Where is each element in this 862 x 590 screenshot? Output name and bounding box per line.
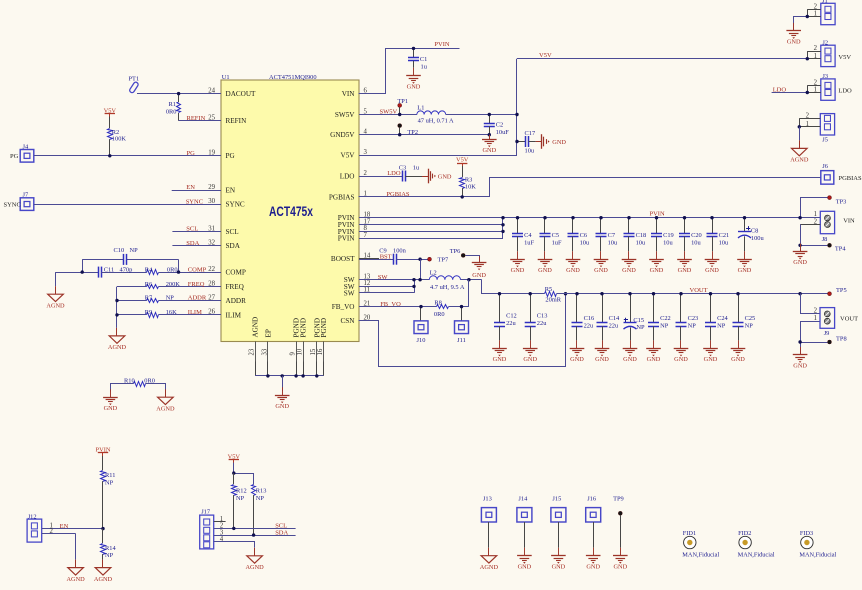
node junction C8 <box>743 216 746 219</box>
ground GND (C6) <box>572 251 574 259</box>
svg-text:GND: GND <box>538 267 552 274</box>
capacitor C3 1u <box>399 164 422 181</box>
svg-text:R7: R7 <box>145 295 153 302</box>
svg-text:L1: L1 <box>417 104 424 111</box>
svg-text:LDO: LDO <box>773 87 787 94</box>
ground GND (R10) <box>110 389 112 397</box>
wire TP3 riser <box>801 198 828 218</box>
svg-text:EP: EP <box>265 329 273 337</box>
svg-text:PGBIAS: PGBIAS <box>839 175 862 182</box>
wire EN stub <box>172 190 221 192</box>
connector J17 <box>200 509 226 549</box>
ground GND (C13) <box>530 340 532 348</box>
node junction PVIN/J8 <box>798 216 801 219</box>
node junction R12/SCL <box>232 527 235 530</box>
wire C2 to GND <box>489 135 491 140</box>
svg-text:10: 10 <box>297 348 304 355</box>
svg-text:U1: U1 <box>222 74 230 81</box>
wire SCL stub <box>172 231 221 233</box>
svg-text:EN: EN <box>226 186 236 194</box>
svg-text:10u: 10u <box>608 240 618 247</box>
svg-text:7: 7 <box>364 232 368 239</box>
ground AGND (C11) <box>55 286 57 294</box>
svg-text:GND: GND <box>738 267 752 274</box>
node junction TP8 <box>798 340 801 343</box>
node junction C6 <box>571 216 574 219</box>
svg-text:GND: GND <box>793 259 807 266</box>
node junction BOOST/SW <box>418 258 421 261</box>
svg-text:V5V: V5V <box>456 157 469 164</box>
ground GND (J1) <box>793 23 795 31</box>
ground GND (C1) <box>413 68 415 76</box>
svg-text:C14: C14 <box>609 315 620 322</box>
wire to AGND <box>55 272 57 286</box>
ground GND (C23) <box>680 340 682 348</box>
svg-text:2: 2 <box>50 528 54 535</box>
ground GND (C19) <box>656 251 658 259</box>
connector J14 <box>517 496 532 548</box>
svg-text:GND: GND <box>623 356 637 363</box>
node junction CSN/VOUT <box>564 292 567 295</box>
svg-text:GND: GND <box>613 563 627 570</box>
svg-text:1: 1 <box>814 211 817 218</box>
svg-text:2: 2 <box>806 113 810 120</box>
svg-text:C5: C5 <box>552 232 559 239</box>
capacitor C16 22u <box>572 294 595 341</box>
wire GND5V <box>359 134 489 136</box>
test point TP6 <box>450 248 466 257</box>
svg-text:J11: J11 <box>457 337 466 344</box>
svg-text:2: 2 <box>814 45 818 52</box>
svg-text:100n: 100n <box>393 247 407 254</box>
svg-text:16K: 16K <box>166 309 177 316</box>
svg-text:NP: NP <box>256 495 265 502</box>
svg-text:SDA: SDA <box>275 530 288 537</box>
ground AGND (J5) <box>799 140 801 148</box>
wire VOUT to J9 pin2 <box>801 294 821 314</box>
svg-text:PG: PG <box>10 153 19 160</box>
svg-text:1u: 1u <box>413 164 420 171</box>
svg-text:EN: EN <box>60 523 69 530</box>
resistor R11 NP <box>101 456 116 529</box>
node junction C5 <box>543 216 546 219</box>
svg-text:2: 2 <box>814 218 818 225</box>
svg-text:GND: GND <box>570 356 584 363</box>
wire FB up to L2 node <box>468 280 470 307</box>
svg-text:TP6: TP6 <box>450 248 461 255</box>
svg-text:R1: R1 <box>169 101 176 108</box>
svg-text:FID2: FID2 <box>738 530 751 537</box>
svg-text:C9: C9 <box>379 247 386 254</box>
wire L2 to VOUT rail <box>482 280 545 294</box>
svg-text:GND: GND <box>552 563 566 570</box>
svg-text:AGND: AGND <box>66 576 85 583</box>
wire BOOST <box>359 259 393 261</box>
svg-text:1uF: 1uF <box>552 240 562 247</box>
capacitor C19 10u <box>651 218 674 252</box>
svg-text:ACT475x: ACT475x <box>269 204 313 219</box>
svg-text:PG: PG <box>187 150 196 157</box>
connector J13 <box>481 496 496 548</box>
connector J7 <box>4 192 34 211</box>
svg-text:TP8: TP8 <box>836 336 847 343</box>
svg-text:C24: C24 <box>717 315 728 322</box>
ground GND (TP6) <box>479 256 481 262</box>
node junction R2/PG <box>108 154 111 157</box>
svg-text:C3: C3 <box>399 164 406 171</box>
ground GND (C4) <box>517 251 519 259</box>
svg-text:10u: 10u <box>580 240 590 247</box>
svg-text:J10: J10 <box>417 337 426 344</box>
svg-text:C21: C21 <box>719 232 730 239</box>
capacitor C5 1uF <box>540 218 562 252</box>
ground GND (C17) sideways <box>536 141 542 143</box>
svg-text:AGND: AGND <box>94 576 113 583</box>
ground AGND (J17) <box>254 548 256 556</box>
connector J8 VIN <box>800 211 855 243</box>
svg-text:22u: 22u <box>609 323 619 330</box>
svg-text:PG: PG <box>226 152 235 160</box>
capacitor C8 100u polarized <box>738 218 764 252</box>
svg-text:PGND: PGND <box>320 318 328 338</box>
svg-text:R9: R9 <box>145 309 152 316</box>
node junction J10 <box>419 305 422 308</box>
svg-text:TP5: TP5 <box>836 287 847 294</box>
power PVIN (J12 divider) <box>96 446 111 456</box>
node junction C2 top <box>488 113 491 116</box>
capacitor C10 NP <box>82 247 178 265</box>
wire FB_VO <box>359 306 437 308</box>
svg-text:FID3: FID3 <box>800 530 813 537</box>
wire LDO stub <box>359 176 402 178</box>
svg-text:30: 30 <box>208 198 215 205</box>
svg-text:R8: R8 <box>434 299 441 306</box>
wire V5V rail <box>516 59 518 155</box>
svg-text:SYNC: SYNC <box>186 198 203 205</box>
ground GND (TP9) <box>620 548 622 556</box>
test point TP5 <box>828 287 847 296</box>
svg-text:1: 1 <box>814 53 817 60</box>
svg-text:C10: C10 <box>114 247 125 254</box>
node junction TP2 <box>398 133 401 136</box>
connector J4 <box>10 143 34 162</box>
ground AGND (J12) <box>75 560 77 568</box>
svg-text:1u: 1u <box>421 64 428 71</box>
svg-text:TP4: TP4 <box>835 246 846 253</box>
svg-text:COMP: COMP <box>188 266 207 273</box>
svg-text:R10: R10 <box>124 377 135 384</box>
svg-text:GND: GND <box>518 563 532 570</box>
ground GND (J8) <box>800 244 802 252</box>
connector J12 <box>27 513 103 542</box>
connector J15 <box>551 496 566 548</box>
resistor R9 16K <box>117 309 221 317</box>
svg-text:NP: NP <box>105 479 114 486</box>
node junction L2 out <box>467 278 470 281</box>
svg-text:2: 2 <box>814 3 818 10</box>
node junction TP4 <box>798 244 801 247</box>
node junction EN/R11 <box>101 527 104 530</box>
node junction C23 <box>679 292 682 295</box>
ground GND (J14) <box>524 548 526 556</box>
svg-text:29: 29 <box>208 184 215 191</box>
resistor R10 0R0 <box>111 377 166 391</box>
wire SDA <box>214 535 296 537</box>
svg-text:C6: C6 <box>580 232 587 239</box>
svg-text:GND: GND <box>586 563 600 570</box>
svg-text:470p: 470p <box>120 266 133 273</box>
wire AGND/EP/PGND bus <box>255 362 257 376</box>
svg-text:SCL: SCL <box>226 228 239 236</box>
svg-text:L2: L2 <box>430 270 437 277</box>
test point TP1 <box>397 98 408 115</box>
wire J12 pin2 to AGND <box>75 534 77 560</box>
svg-text:C18: C18 <box>636 232 647 239</box>
svg-text:J5: J5 <box>822 137 828 144</box>
node junction J9 riser <box>798 292 801 295</box>
svg-text:GND: GND <box>793 363 807 370</box>
wire J9 pin1 to GND <box>801 322 821 355</box>
svg-text:4: 4 <box>220 536 224 543</box>
wire L1 out to V5V node <box>446 114 517 116</box>
svg-text:PGBIAS: PGBIAS <box>329 193 355 201</box>
svg-text:C15: C15 <box>633 317 644 324</box>
svg-text:REFIN: REFIN <box>187 115 206 122</box>
svg-text:GND: GND <box>552 139 566 146</box>
wire SYNC <box>34 204 221 206</box>
node junction J11 <box>460 305 463 308</box>
svg-text:J17: J17 <box>201 509 211 516</box>
capacitor C1 1u <box>408 48 428 70</box>
svg-text:1: 1 <box>814 87 817 94</box>
svg-text:TP3: TP3 <box>836 198 847 205</box>
ground GND (C16) <box>576 340 578 348</box>
capacitor C7 10u <box>596 218 618 252</box>
resistor R5 20mR <box>545 286 562 303</box>
svg-text:10u: 10u <box>691 240 701 247</box>
power V5V (R2 pullup) <box>104 107 117 117</box>
svg-text:22u: 22u <box>584 323 594 330</box>
svg-text:0R0: 0R0 <box>434 311 445 318</box>
ground AGND (R6 R7 R9) <box>116 328 118 336</box>
svg-text:C12: C12 <box>506 313 517 320</box>
svg-text:AGND: AGND <box>480 564 499 571</box>
svg-text:22u: 22u <box>506 320 516 327</box>
svg-text:ADDR: ADDR <box>226 297 247 305</box>
svg-text:VOUT: VOUT <box>690 287 708 294</box>
svg-text:C2: C2 <box>496 122 503 129</box>
svg-text:PVIN: PVIN <box>338 235 356 243</box>
connector J1 <box>807 0 835 25</box>
svg-text:FB_VO: FB_VO <box>380 301 401 308</box>
capacitor C14 22u <box>597 294 621 341</box>
svg-text:47 uH, 0.71 A: 47 uH, 0.71 A <box>418 118 454 125</box>
svg-text:SW: SW <box>344 289 355 297</box>
resistor R7 NP <box>117 295 221 303</box>
inductor L1 47uH <box>417 104 454 124</box>
svg-text:10u: 10u <box>719 240 729 247</box>
svg-text:10u: 10u <box>636 240 646 247</box>
capacitor C20 10u <box>679 218 702 252</box>
resistor R3 10K <box>460 166 477 197</box>
svg-text:NP: NP <box>688 323 697 330</box>
svg-text:LDO: LDO <box>838 88 852 95</box>
svg-text:NP: NP <box>130 247 139 254</box>
svg-text:AGND: AGND <box>252 317 260 338</box>
svg-text:GND: GND <box>472 272 486 279</box>
resistor R2 100K <box>108 117 127 156</box>
wire PGBIAS <box>359 178 821 197</box>
svg-text:GND: GND <box>566 267 580 274</box>
svg-text:2: 2 <box>364 170 368 177</box>
ground GND (C25) <box>738 340 740 348</box>
svg-text:SYNC: SYNC <box>226 201 245 209</box>
connector J2 V5V <box>807 40 851 67</box>
svg-text:GND: GND <box>523 356 537 363</box>
svg-text:MAN,Fiducial: MAN,Fiducial <box>738 552 775 559</box>
ground GND (C14) <box>602 340 604 348</box>
ground GND (C12) <box>499 340 501 348</box>
svg-text:1: 1 <box>806 121 809 128</box>
node junction pullup branch <box>232 471 235 474</box>
wire LDO to J3 <box>772 92 808 94</box>
test point TP9 <box>613 496 624 548</box>
svg-text:SW5V: SW5V <box>335 111 355 119</box>
test point TP3 <box>828 196 847 206</box>
svg-text:R11: R11 <box>105 472 115 479</box>
op-amp U1 ACT475x regulator body <box>221 74 359 342</box>
node junction C19 <box>655 216 658 219</box>
node junction C14 <box>600 292 603 295</box>
fiducial FID3 <box>799 530 836 558</box>
ground GND (J15) <box>558 548 560 556</box>
wire J17 pin4 to AGND <box>214 542 255 548</box>
capacitor C6 10u <box>568 218 590 252</box>
svg-text:23: 23 <box>249 348 256 355</box>
wire C10 left drop <box>82 259 84 272</box>
wire VOUT rail <box>557 293 828 295</box>
resistor R6 200K <box>117 281 221 289</box>
connector J5 <box>799 113 834 144</box>
wire BOOST to SW <box>420 259 422 280</box>
svg-text:J14: J14 <box>518 496 528 503</box>
node junction TP1 <box>398 113 401 116</box>
svg-text:SW: SW <box>378 274 389 281</box>
test point TP4 <box>800 243 846 252</box>
svg-text:33: 33 <box>261 348 268 355</box>
svg-text:PT1: PT1 <box>129 76 140 83</box>
svg-text:AGND: AGND <box>156 405 175 412</box>
svg-text:PGND: PGND <box>300 318 308 338</box>
svg-text:FREQ: FREQ <box>188 281 205 288</box>
svg-text:J13: J13 <box>483 496 492 503</box>
ground GND (C20) <box>684 251 686 259</box>
node junction C2/GND5V <box>488 133 491 136</box>
capacitor C13 22u <box>525 294 548 341</box>
svg-text:100u: 100u <box>751 235 765 242</box>
svg-text:BST: BST <box>380 253 392 260</box>
svg-text:MAN,Fiducial: MAN,Fiducial <box>682 552 719 559</box>
connector J16 <box>586 496 601 548</box>
wire TP6 to GND <box>466 256 480 263</box>
ground AGND (R10) <box>165 389 167 397</box>
svg-text:GND: GND <box>275 403 289 410</box>
test point TP7 <box>428 257 449 264</box>
svg-text:C20: C20 <box>691 232 702 239</box>
node junction C18 <box>627 216 630 219</box>
svg-text:R6: R6 <box>145 281 152 288</box>
U1 pin names and numbers <box>201 87 379 361</box>
svg-text:FB_VO: FB_VO <box>332 303 355 311</box>
ground GND (C5) <box>544 251 546 259</box>
svg-text:SDA: SDA <box>226 242 241 250</box>
svg-text:10K: 10K <box>465 184 476 191</box>
node junction L1/V5V <box>515 113 518 116</box>
capacitor C2 10uF <box>484 115 509 137</box>
svg-text:C8: C8 <box>751 228 758 235</box>
svg-text:R12: R12 <box>236 487 247 494</box>
svg-text:GND: GND <box>674 356 688 363</box>
svg-text:ACT4751MQI900: ACT4751MQI900 <box>269 74 317 81</box>
svg-text:NP: NP <box>745 323 754 330</box>
svg-text:EN: EN <box>186 184 195 191</box>
svg-text:SYNC: SYNC <box>4 202 21 209</box>
wire J8 pin2 to GND <box>800 225 802 252</box>
resistor R4 0R0 <box>145 266 221 274</box>
ground GND (C3) sideways <box>422 176 428 178</box>
svg-text:R5: R5 <box>545 286 552 293</box>
svg-text:NP: NP <box>166 295 175 302</box>
fiducial FID2 <box>738 530 775 558</box>
svg-text:22: 22 <box>208 266 215 273</box>
svg-text:10u: 10u <box>525 147 535 154</box>
svg-text:ILIM: ILIM <box>226 311 242 319</box>
connector J9 VOUT <box>814 308 858 337</box>
node junction C25 <box>736 292 739 295</box>
capacitor C25 NP <box>733 294 756 341</box>
svg-text:J4: J4 <box>23 143 29 150</box>
svg-text:2: 2 <box>814 308 818 315</box>
capacitor C23 NP <box>676 294 699 341</box>
wire L2 out <box>461 279 482 281</box>
svg-text:AGND: AGND <box>790 157 809 164</box>
svg-text:GND: GND <box>622 267 636 274</box>
svg-text:TP1: TP1 <box>397 98 408 105</box>
svg-text:GND: GND <box>647 356 661 363</box>
svg-text:J1: J1 <box>822 0 828 5</box>
svg-text:TP2: TP2 <box>407 129 418 136</box>
svg-text:AGND: AGND <box>245 564 264 571</box>
svg-text:V5V: V5V <box>838 54 851 61</box>
ground GND (C18) <box>628 251 630 259</box>
svg-text:GND: GND <box>650 267 664 274</box>
ground GND (C2) <box>489 135 491 140</box>
svg-text:GND: GND <box>705 267 719 274</box>
svg-text:0R0: 0R0 <box>167 266 178 273</box>
svg-text:R4: R4 <box>145 266 153 273</box>
node junction C4 <box>516 216 519 219</box>
svg-text:V5V: V5V <box>341 152 356 160</box>
svg-text:1uF: 1uF <box>524 240 534 247</box>
svg-text:AGND: AGND <box>108 344 127 351</box>
svg-text:0R0: 0R0 <box>166 108 177 115</box>
wire PVIN bus <box>359 217 820 219</box>
svg-text:J6: J6 <box>822 163 828 170</box>
capacitor C22 NP <box>648 294 671 341</box>
connector J10 <box>414 307 428 345</box>
svg-text:ADDR: ADDR <box>188 295 207 302</box>
wire SW5V <box>359 114 417 116</box>
